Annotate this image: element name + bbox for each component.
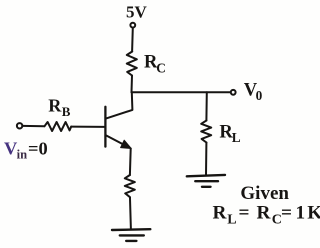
wire node to RL	[205, 92, 207, 120]
svg-text:R: R	[48, 95, 62, 115]
svg-text:=: =	[281, 203, 292, 224]
svg-text:B: B	[62, 104, 71, 119]
wire collector node to output	[132, 91, 231, 93]
label RB	[48, 95, 71, 118]
terminal Vo	[231, 90, 236, 95]
svg-text:in: in	[17, 148, 28, 162]
label RL	[219, 122, 240, 146]
resistor RB	[45, 122, 72, 131]
wire Vin to RB	[23, 125, 45, 127]
wire RL to ground	[205, 143, 207, 176]
svg-text:1: 1	[296, 203, 306, 224]
label Vin = 0	[4, 138, 48, 161]
wire emitter lead	[129, 149, 132, 176]
ground (emitter)	[112, 229, 150, 241]
terminal Vin	[17, 123, 22, 128]
ground (RL)	[187, 175, 225, 187]
svg-text:Given: Given	[240, 183, 289, 204]
terminal 5V	[130, 23, 135, 28]
wire 5V to RC	[131, 28, 134, 52]
resistor RE (emitter)	[125, 175, 135, 199]
text RL = RC = 1 K	[213, 203, 320, 228]
wire RB to base	[71, 126, 104, 128]
svg-text:=0: =0	[28, 138, 48, 158]
svg-text:L: L	[227, 212, 236, 227]
wire RC to collector node	[131, 76, 134, 93]
svg-text:0: 0	[256, 88, 263, 103]
transistor Q1	[105, 107, 131, 149]
resistor RL	[201, 121, 211, 143]
label Vo	[244, 79, 263, 103]
svg-text:5V: 5V	[126, 3, 148, 22]
wire RE to ground	[129, 199, 132, 230]
svg-text:=: =	[239, 203, 250, 224]
label RC	[144, 52, 166, 76]
svg-text:C: C	[156, 60, 166, 75]
wire collector lead	[106, 92, 133, 118]
resistor RC	[127, 52, 137, 76]
svg-text:K: K	[307, 203, 320, 224]
svg-text:R: R	[257, 203, 272, 224]
svg-text:R: R	[213, 203, 228, 224]
svg-text:L: L	[232, 130, 241, 145]
